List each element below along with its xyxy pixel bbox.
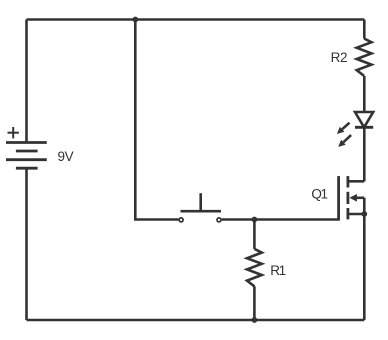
junction dot switch-gate-R1 [252,217,258,223]
wire top rail down to switch [134,20,137,220]
wire top rail [27,18,365,21]
svg-text:Q1: Q1 [311,187,327,202]
battery BT1 [6,143,47,169]
transistor Q1 channel top segment [346,176,349,187]
wire R1 to bottom rail [253,286,256,320]
pushbutton S1 bar [181,210,222,213]
wire R2 to LED [363,76,366,112]
resistor R2 [357,39,372,76]
transistor Q1 channel bottom segment [346,208,349,219]
svg-text:R2: R2 [331,50,347,65]
transistor Q1 channel middle segment [346,192,349,204]
junction dot at Q1 source [361,211,367,217]
wire switch left lead [134,218,178,221]
svg-text:9V: 9V [58,149,74,164]
LED D1 emission arrow 2 [338,135,351,147]
wire left rail upper (top rail to battery +) [25,20,28,143]
transistor Q1 body arrow [349,194,364,202]
junction dot at top rail [132,17,138,23]
pushbutton S1 left contact [179,218,183,222]
wire left rail lower (battery - to bottom rail) [25,168,28,320]
transistor Q1 source lead [348,213,364,216]
transistor Q1 drain lead [348,180,364,183]
wire bottom rail [27,319,365,322]
pushbutton S1 right contact [217,218,221,222]
transistor Q1 gate plate [337,176,340,221]
wire switch right lead to Q1 gate [222,218,339,221]
wire junction down to R1 [253,220,256,249]
wire right rail top (top rail to R2) [363,20,366,39]
pushbutton S1 stem [199,193,202,211]
LED D1 cathode bar [355,126,373,129]
wire LED to Q1 drain [363,127,366,181]
LED D1 anode triangle [355,112,373,127]
battery BT1 plus sign [8,127,19,138]
LED D1 emission arrow 1 [337,123,350,134]
transistor Q1 body-to-source wire [363,198,366,214]
resistor R1 [247,249,262,286]
junction dot at bottom rail [252,317,258,323]
svg-text:R1: R1 [270,263,285,278]
wire Q1 source to bottom rail [363,214,366,320]
